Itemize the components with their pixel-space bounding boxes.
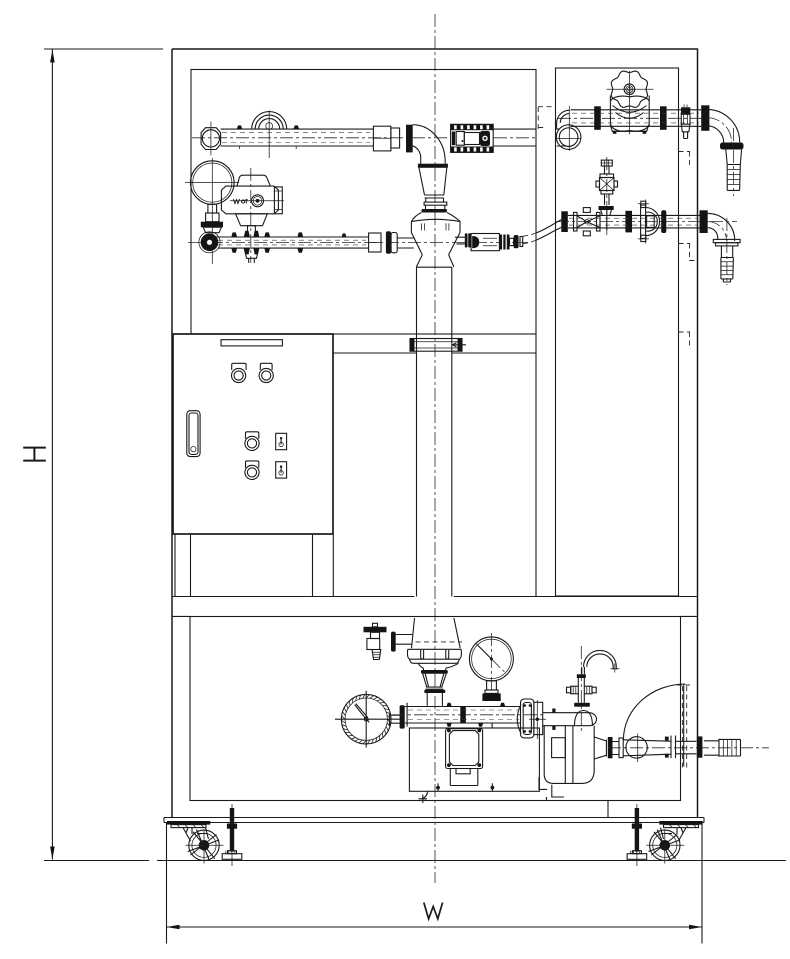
right panel top pipe centerline: [558, 117, 712, 119]
pipe P4 mid-right: [568, 215, 700, 228]
priming elbow into casing: [574, 711, 592, 727]
dimension W extension lines: [167, 823, 703, 944]
venturi eductor body (center): [419, 168, 447, 202]
outer frame: [172, 49, 698, 818]
discharge cone: [594, 737, 606, 759]
gasket flanges P3: [594, 106, 601, 130]
riser pipe (center vertical): [417, 267, 452, 597]
pushbutton PB1: [246, 432, 259, 439]
positioner stem stack: [208, 204, 217, 213]
elbow P1 to riser: [413, 125, 446, 164]
hose barb B3: [704, 739, 741, 757]
venturi left port: [397, 238, 414, 248]
pump casing: [544, 726, 594, 784]
hose barb B2: [726, 218, 728, 285]
left caster C1: plate: [167, 821, 210, 825]
pump suction flange plates: [517, 705, 521, 734]
flange pair P2-venturi: [391, 233, 397, 253]
actuator dial: [252, 195, 264, 207]
elbow to hose H1: [707, 109, 740, 142]
gasket flange: [625, 211, 632, 233]
swing-arc fitting on P1: [252, 112, 287, 130]
ball valve V4: [574, 212, 578, 231]
actuator label: [234, 199, 249, 204]
cross fitting with hex nuts: [578, 694, 584, 703]
right leveling foot F2: [635, 808, 639, 852]
label W: [424, 903, 443, 919]
priming line centerline: [580, 646, 582, 733]
elbow with bell end: [556, 125, 581, 150]
injector fitting J1: [465, 233, 468, 247]
riser top gasket band: [418, 164, 448, 168]
butterfly valve V2 centerline: [250, 168, 252, 263]
tank box: [409, 728, 539, 791]
hidden dashes at right posts: [679, 152, 698, 348]
left upper panel: [191, 70, 536, 335]
dimension H extension line top: [44, 48, 163, 50]
positioner gauge circle above P2: [191, 161, 235, 205]
elbow to hose B2: [708, 213, 735, 241]
riser clamp: [410, 339, 462, 352]
dimension line H: [51, 50, 53, 860]
gasket flange at frame: [697, 736, 703, 757]
gasket ring P2: [386, 231, 391, 254]
right panel mid pipe centerline: [556, 221, 737, 223]
control panel CP: [173, 334, 333, 534]
arrowhead H bottom: [50, 847, 55, 860]
lamp L1: [232, 363, 246, 370]
C2 fork: [661, 828, 687, 841]
anchor bolts on tank base: [436, 786, 440, 790]
drain hook and cross: [419, 791, 428, 803]
hose from injector to right panel: [523, 233, 536, 244]
suction manifold pipe: [407, 707, 520, 724]
gooseneck hook: [582, 667, 585, 675]
left leveling foot F1: [230, 808, 234, 852]
pipe bore hidden lines: [218, 113, 699, 719]
pipe P1 upper-left: centerline: [192, 137, 536, 139]
arrowhead W right: [689, 925, 702, 930]
mid rail: [172, 597, 698, 617]
pushbutton PB2: [246, 461, 259, 468]
door handle: [187, 411, 200, 457]
base channel: [164, 818, 704, 823]
C1 fork: [183, 828, 209, 841]
hidden pipe segment (dashed): [538, 107, 556, 129]
right caster C2: plate: [659, 821, 702, 825]
nameplate strip: [221, 340, 282, 346]
suction manifold pipe centerline: [392, 714, 545, 716]
main vertical centerline: [434, 14, 436, 883]
pipe P2 end cap (dark): [201, 234, 219, 252]
ground line: [44, 860, 786, 862]
actuator mount + valve stem: [236, 214, 268, 226]
label H (rotated): [23, 448, 46, 461]
C2 wheel: [650, 830, 680, 860]
rail under left panel y334/353: [333, 334, 536, 353]
discharge centerline: [608, 747, 769, 749]
lower inner box: [190, 617, 681, 801]
valve flange bolts: [244, 231, 259, 255]
right tall panel: [556, 68, 679, 596]
panel pedestal: [450, 769, 478, 786]
funnel hopper on riser: [412, 618, 461, 648]
V3 handwheel: [611, 71, 647, 107]
lamp L2: [260, 363, 272, 370]
selector switch S2: [276, 462, 287, 478]
hose barb B1: [732, 128, 734, 196]
discharge neck + flange: [613, 742, 620, 755]
pump feet: [539, 777, 564, 800]
weld nubs P1: [237, 125, 300, 129]
venturi right port: [455, 237, 465, 244]
post between panels: [535, 334, 537, 596]
arrowhead H top: [50, 50, 55, 63]
pipe P1 continuation to right panel: [493, 129, 537, 146]
pipe P1 end hex cap: [201, 128, 221, 150]
gauge G1 stub to pipe: [389, 713, 399, 726]
sample valve SV on funnel: [364, 627, 387, 633]
pipe P3 top-right: [571, 110, 702, 127]
selector switch S1: [276, 433, 287, 449]
tapered discharge pipe with ball joint: [623, 736, 696, 759]
gauge G1 (compound): [341, 694, 391, 744]
gasket flange at frame: [700, 210, 708, 233]
hose swing arc: [623, 684, 685, 740]
actuator M1 body: [237, 175, 270, 186]
globe valve V3 body: [610, 96, 649, 132]
access panel: [446, 729, 483, 769]
dimension line W: [167, 926, 703, 928]
pipe P1 body: [221, 129, 374, 146]
C1 wheel: [189, 830, 219, 860]
gasket flange at hose end: [561, 211, 568, 232]
posts under control panel: [175, 534, 333, 596]
pipe P2 body: [216, 237, 369, 248]
bolt pairs on P2: [231, 232, 346, 252]
pipe P2 lower-left: centerline: [188, 241, 528, 243]
bleed fitting on P3 at frame: [681, 107, 690, 114]
relief valve RV1: [606, 157, 608, 235]
flowmeter FM on P1 branch: [451, 124, 494, 152]
union on P1: [373, 126, 391, 151]
pump barrel: [543, 713, 597, 726]
gasket ring P1: [406, 125, 413, 153]
gauge G2: [469, 637, 513, 681]
sight glass SG1: [646, 208, 660, 236]
collar flange pair: [708, 222, 727, 241]
arrowhead W left: [167, 925, 180, 930]
union on P2: [369, 233, 381, 252]
